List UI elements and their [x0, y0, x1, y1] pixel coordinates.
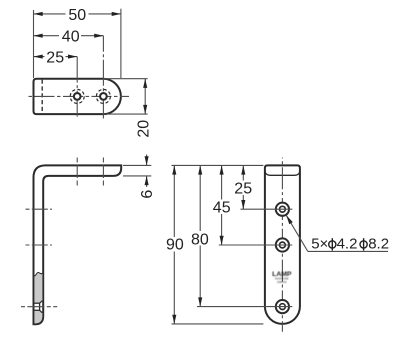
hidden bend line (dashed)	[41, 80, 43, 114]
svg-text:40: 40	[62, 29, 80, 46]
side view outline	[34, 165, 122, 324]
dimension 20	[144, 79, 146, 114]
extension line left	[33, 10, 35, 78]
dimension 25	[242, 165, 244, 209]
horizontal centerline	[26, 95, 129, 97]
svg-text:6: 6	[139, 190, 156, 199]
hole 1 (top view)	[74, 93, 81, 100]
top view outline	[34, 79, 121, 114]
svg-text:25: 25	[234, 181, 252, 198]
svg-text:90: 90	[166, 237, 184, 254]
extension lines for 20	[104, 78, 148, 80]
svg-text:25: 25	[46, 50, 64, 67]
LAMP logo	[272, 271, 291, 284]
hole 2 centerline (vertical)	[102, 36, 104, 119]
countersunk hole section: cone lines	[40, 301, 43, 304]
hole B (front)	[276, 238, 289, 251]
svg-text:45: 45	[213, 200, 231, 217]
hole 2 centerline through flange	[102, 158, 104, 186]
extension line right	[120, 9, 122, 78]
dimension 40	[34, 35, 104, 37]
hole C (front)	[276, 300, 289, 313]
dimension 45	[221, 165, 223, 245]
svg-text:4.2: 4.2	[337, 235, 358, 252]
local section gray fill upper	[34, 273, 42, 304]
hole A centerline (25)	[26, 208, 53, 210]
leader underline	[308, 250, 388, 252]
vertical centerline	[281, 158, 283, 332]
hole B centerline (45)	[26, 244, 53, 246]
dimension 50	[34, 13, 121, 15]
extension line hole B	[219, 244, 292, 246]
countersunk hole section: junction line	[39, 303, 41, 310]
dimension 6 arrows (outside)	[146, 155, 148, 166]
hole 2 (top view)	[100, 93, 107, 100]
hole 1 centerline through flange	[76, 158, 78, 186]
dimension 90	[173, 165, 175, 324]
front view outline	[265, 165, 300, 324]
svg-text:5×: 5×	[311, 235, 328, 252]
countersunk hole section: cylinder lines	[34, 302, 40, 304]
hole 1 centerline (vertical)	[76, 57, 78, 119]
extension line top	[172, 164, 264, 166]
svg-text:80: 80	[191, 232, 209, 249]
hole A (front)	[276, 203, 289, 216]
dimension 25	[34, 56, 78, 58]
hole C centerline (80)	[21, 306, 58, 308]
local section gray fill lower	[34, 310, 42, 323]
extension line bottom	[172, 323, 264, 325]
break line (wavy)	[34, 273, 43, 276]
extension line hole C	[197, 306, 292, 308]
svg-text:20: 20	[136, 120, 153, 138]
svg-text:50: 50	[68, 7, 86, 24]
svg-text:JAPAN: JAPAN	[277, 280, 287, 284]
dimension 80	[199, 165, 201, 306]
extension lines for 6	[123, 164, 151, 166]
svg-text:8.2: 8.2	[368, 235, 389, 252]
leader line to hole A	[286, 215, 308, 251]
diameter symbol 1	[329, 238, 336, 250]
bend tangent line	[265, 171, 300, 176]
diameter symbol 2	[360, 238, 367, 250]
extension line hole A	[241, 208, 293, 210]
